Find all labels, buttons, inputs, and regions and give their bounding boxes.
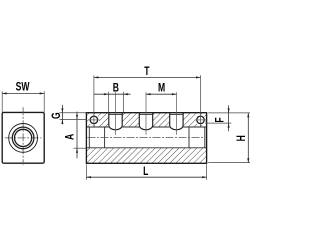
dimension B (94, 82, 131, 134)
mounting hole right (195, 116, 207, 124)
mounting hole clearance white discs (89, 115, 206, 126)
svg-text:F: F (214, 117, 227, 122)
bore bottom line (top of bottom strip) (86, 147, 206, 149)
mounting hole left (88, 116, 100, 124)
svg-text:T: T (144, 66, 150, 79)
dimension T (94, 66, 201, 127)
port P1 white slot (109, 112, 122, 130)
left view port thread circles (9, 123, 38, 152)
bore center line (88, 137, 206, 139)
dimension M (146, 83, 176, 135)
left view block outline (2, 112, 44, 163)
dimension H (208, 113, 250, 163)
port P2 white slot (139, 112, 152, 130)
port P3 white slot (170, 112, 183, 130)
dimension G (51, 105, 86, 125)
svg-text:B: B (113, 82, 119, 95)
svg-text:SW: SW (16, 81, 30, 94)
dimension F (205, 105, 250, 131)
right view top hatched strip (86, 113, 206, 127)
left view center cross (5, 107, 42, 165)
right view bottom hatched strip (86, 148, 206, 164)
dimension SW (2, 81, 44, 112)
dimension L (86, 164, 206, 180)
port P3 walls and thread (170, 113, 183, 130)
port P2 walls and thread (139, 113, 152, 130)
top strip bottom edge segments (86, 126, 206, 128)
dimension A (64, 112, 86, 159)
svg-text:A: A (64, 133, 77, 140)
svg-text:M: M (158, 83, 165, 96)
right view outline (86, 113, 206, 164)
svg-text:L: L (143, 166, 148, 179)
port P1 walls and thread (109, 113, 122, 130)
svg-text:H: H (236, 135, 249, 141)
svg-text:G: G (51, 112, 64, 119)
bore step lines (89, 127, 205, 148)
